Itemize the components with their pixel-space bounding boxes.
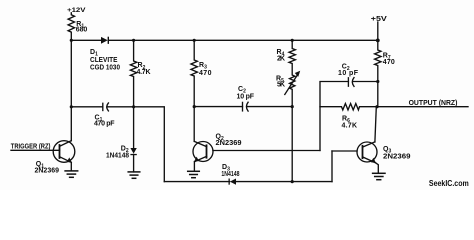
svg-text:1N4148: 1N4148: [106, 152, 129, 159]
svg-text:2N2369: 2N2369: [35, 167, 60, 174]
svg-text:470: 470: [383, 59, 395, 66]
svg-text:SeekIC.com: SeekIC.com: [429, 178, 469, 188]
svg-text:470 pF: 470 pF: [94, 120, 115, 127]
svg-text:4.7K: 4.7K: [137, 69, 151, 76]
svg-text:+12V: +12V: [67, 7, 86, 14]
svg-text:+5V: +5V: [371, 16, 387, 23]
svg-text:CLEVITE: CLEVITE: [90, 57, 118, 64]
svg-text:2N2369: 2N2369: [383, 153, 411, 160]
svg-text:1N4148: 1N4148: [221, 170, 240, 178]
svg-text:4.7K: 4.7K: [342, 122, 358, 129]
svg-text:CGD 1030: CGD 1030: [90, 65, 120, 72]
svg-text:470: 470: [199, 70, 212, 77]
svg-text:OUTPUT (NRZ): OUTPUT (NRZ): [409, 100, 458, 107]
svg-text:10 pF: 10 pF: [338, 70, 359, 77]
svg-text:2N2369: 2N2369: [216, 140, 242, 147]
svg-text:2K: 2K: [277, 56, 285, 63]
svg-text:680: 680: [76, 27, 88, 34]
svg-text:5K: 5K: [277, 81, 285, 88]
svg-text:TRIGGER (RZ): TRIGGER (RZ): [11, 143, 51, 151]
svg-text:10 pF: 10 pF: [237, 93, 255, 100]
